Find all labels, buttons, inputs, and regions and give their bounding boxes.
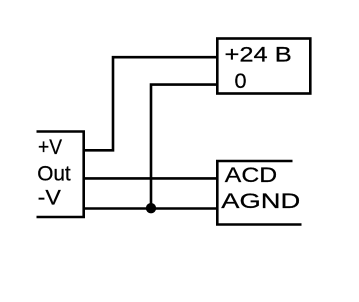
svg-text:+24 В: +24 В (225, 43, 292, 67)
svg-text:AGND: AGND (221, 189, 300, 213)
svg-text:0: 0 (235, 69, 247, 93)
svg-text:Out: Out (37, 161, 71, 185)
svg-text:ACD: ACD (225, 163, 277, 187)
svg-text:-V: -V (38, 186, 62, 210)
svg-text:+V: +V (38, 135, 63, 159)
